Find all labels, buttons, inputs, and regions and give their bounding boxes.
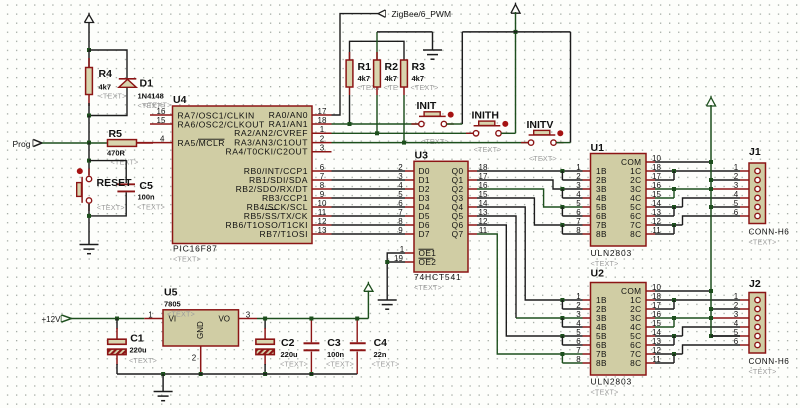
U2 pin 3 3B [583, 317, 591, 319]
svg-text:15: 15 [157, 116, 166, 125]
svg-text:VO: VO [218, 314, 230, 323]
U1 pin 7 7B [583, 224, 591, 226]
U3 pin 2 D0 [405, 170, 414, 172]
wire RB2 to D2 [332, 188, 406, 190]
svg-text:ULN2803: ULN2803 [591, 377, 633, 387]
U1 pin 15 4C [646, 197, 655, 199]
wire 1C/2C to J pin1 [655, 170, 740, 172]
wire RB1 to D1 [332, 179, 406, 181]
svg-text:C1: C1 [130, 333, 144, 345]
node junction [348, 122, 352, 126]
U3 pin 3 D1 [405, 179, 414, 181]
push-button INIT [419, 115, 446, 117]
U4 pin 7 RB1/SDI/SDA [312, 179, 332, 181]
J2 pin 5 [740, 335, 749, 337]
wire 5C/6C to J pin4 [655, 335, 683, 337]
wire Q6 to U2 5B/6B [477, 225, 583, 336]
resistor R1 [349, 52, 351, 60]
svg-text:<TEXT>: <TEXT> [173, 255, 201, 264]
wire RB7 to D7 [332, 233, 406, 235]
svg-text:<TEXT>: <TEXT> [591, 388, 619, 397]
svg-text:<TEXT>: <TEXT> [137, 203, 165, 212]
svg-text:<TEXT>: <TEXT> [111, 158, 139, 167]
U1 pin 3 3B [583, 188, 591, 190]
svg-text:3: 3 [734, 181, 739, 190]
U3 pin 12 Q6 [468, 224, 477, 226]
U2 pin 2 2B [583, 308, 591, 310]
wire Q2 to U1 5B/6B [477, 189, 583, 207]
U2 pin 7 7B [583, 353, 591, 355]
U1 pin 11 8C [646, 233, 655, 235]
wire 5C/6C to J pin4 [655, 206, 683, 208]
connector J1 CONN-H6 body [749, 163, 766, 224]
wire 7C/8C to J pin6 [655, 224, 683, 226]
svg-text:<TE: <TE [384, 83, 399, 92]
svg-text:RB7/T1OSI: RB7/T1OSI [260, 229, 308, 239]
capacitor C3 [310, 319, 312, 343]
wire [88, 204, 90, 245]
J2 pin 3 [740, 317, 749, 319]
U1 pin 8 8B [583, 233, 591, 235]
wire INITV to rail [556, 142, 571, 144]
svg-text:Prog: Prog [13, 139, 31, 149]
svg-text:8B: 8B [596, 229, 607, 239]
svg-text:U2: U2 [591, 268, 605, 280]
U1 pin 14 5C [646, 206, 655, 208]
wire INIT to rail [447, 123, 463, 125]
svg-text:D7: D7 [419, 229, 430, 239]
wire COM to +V rail [655, 161, 711, 163]
svg-text:3: 3 [576, 181, 581, 190]
U2 pin 6 6B [583, 344, 591, 346]
U3 pin 14 Q4 [468, 206, 477, 208]
J1 pin 1 [740, 170, 749, 172]
svg-text:U5: U5 [164, 287, 178, 299]
U4 pin 17 RA0/AN0 [312, 114, 332, 116]
U1 pin 1 1B [583, 170, 591, 172]
node junction [87, 48, 91, 52]
resistor R3 [401, 60, 408, 87]
wire rail left leg to INIT [461, 32, 463, 124]
svg-text:16: 16 [157, 107, 166, 116]
svg-text:220u: 220u [281, 350, 299, 359]
wire RB0 to D0 [332, 170, 406, 172]
svg-text:4k7: 4k7 [99, 83, 112, 92]
wire R2 to ground [377, 31, 433, 33]
svg-text:5: 5 [734, 199, 739, 208]
J1 pin 3 [740, 188, 749, 190]
wire C5 branch [89, 161, 126, 183]
svg-text:2: 2 [734, 172, 739, 181]
svg-text:8: 8 [320, 181, 325, 190]
svg-text:7: 7 [398, 208, 403, 217]
wire Q1 to U1 3B/4B [477, 180, 583, 189]
svg-text:INIT: INIT [417, 100, 437, 112]
svg-text:5: 5 [576, 199, 581, 208]
svg-text:U3: U3 [415, 150, 429, 162]
wire Prog to R5 [42, 142, 108, 144]
capacitor C4 [356, 319, 358, 343]
U3 pin 11 Q7 [468, 233, 477, 235]
wire VO rail [257, 318, 368, 320]
svg-text:<TEXT>: <TEXT> [411, 83, 439, 92]
svg-text:2: 2 [734, 301, 739, 310]
J1 pin 6 [740, 215, 749, 217]
wire RA3 row [332, 142, 529, 144]
svg-text:74HCT541: 74HCT541 [414, 272, 462, 282]
U3 pin 16 Q2 [468, 188, 477, 190]
svg-text:C5: C5 [139, 180, 153, 192]
U2 pin 11 8C [646, 362, 655, 364]
svg-text:6: 6 [320, 163, 325, 172]
wire RA2 row [332, 132, 474, 134]
svg-text:1: 1 [734, 292, 739, 301]
wire [88, 116, 90, 143]
U4 pin 8 RB2/SDO/RX/DT [312, 188, 332, 190]
svg-text:5: 5 [576, 328, 581, 337]
svg-text:2: 2 [398, 163, 403, 172]
regulator U5 7805 body [163, 310, 239, 346]
U2 pin 15 4C [646, 326, 655, 328]
U2 pin 1 1B [583, 299, 591, 301]
U2 pin 17 2C [646, 308, 655, 310]
U1 pin 12 7C [646, 224, 655, 226]
U2 pin 5 5B [583, 335, 591, 337]
op-amp U3 74HCT541 body [414, 161, 468, 272]
U2 pin 8 8B [583, 362, 591, 364]
U4 pin 1 RA2/AN2/CVREF [312, 132, 332, 134]
svg-text:12: 12 [318, 217, 327, 226]
svg-text:<TEXT>: <TEXT> [749, 238, 777, 247]
U3 pin 7 D5 [405, 215, 414, 217]
svg-text:6: 6 [734, 337, 739, 346]
wire R3 bottom [403, 95, 405, 143]
U4 pin 10 RB4/SCK/SCL [312, 206, 332, 208]
J1 pin 4 [740, 197, 749, 199]
svg-text:INITV: INITV [527, 119, 554, 131]
push-button RESET [77, 168, 83, 174]
J1 pin 5 [740, 206, 749, 208]
J2 pin 1 [740, 299, 749, 301]
svg-text:R3: R3 [412, 61, 426, 73]
svg-text:4: 4 [734, 319, 739, 328]
U3 pin 17 Q1 [468, 179, 477, 181]
resistor R5 [108, 140, 137, 147]
J2 pin 2 [740, 308, 749, 310]
wire [367, 291, 369, 319]
svg-text:100n: 100n [138, 193, 156, 202]
svg-text:<TEXT>: <TEXT> [474, 145, 502, 154]
wire rail to J pin5 [711, 206, 740, 208]
wire COM to +V rail [655, 290, 711, 292]
svg-text:10: 10 [318, 199, 327, 208]
svg-text:CONN-H6: CONN-H6 [749, 228, 790, 237]
U4 pin 9 RB3/CCP1 [312, 197, 332, 199]
J2 pin 4 [740, 326, 749, 328]
svg-text:PIC16F87: PIC16F87 [173, 244, 218, 254]
wire 3C/4C to J pin3 [655, 317, 711, 319]
capacitor C2 [264, 319, 266, 330]
wire rail to J pin2 [711, 179, 740, 181]
wire 1C/2C to J pin1 [655, 299, 740, 301]
ground (U3 OE) [378, 299, 397, 301]
wire D1 branch top [89, 50, 127, 78]
svg-text:7: 7 [576, 217, 581, 226]
wire rail to J pin5 [711, 335, 740, 337]
svg-text:C3: C3 [327, 337, 341, 349]
svg-text:6: 6 [576, 208, 581, 217]
svg-text:2: 2 [576, 301, 581, 310]
svg-text:R5: R5 [109, 128, 123, 140]
wire RA1 row [332, 123, 419, 125]
svg-text:J1: J1 [749, 146, 761, 158]
svg-text:1: 1 [320, 125, 325, 134]
U2 pin 10 COM [646, 290, 655, 292]
svg-text:4: 4 [576, 319, 581, 328]
svg-text:17: 17 [318, 107, 327, 116]
U1 pin 13 6C [646, 215, 655, 217]
U3 pin 6 D4 [405, 206, 414, 208]
svg-text:<TEXT>: <TEXT> [129, 356, 157, 365]
U1 pin 10 COM [646, 161, 655, 163]
push-button INITH [474, 125, 501, 127]
U3 pin 19 OE2 [405, 261, 414, 263]
U4 pin 2 RA3/AN3/C1OUT [312, 142, 332, 144]
svg-text:GND: GND [196, 321, 205, 339]
wire ZigBee to RA0 [332, 14, 379, 115]
U5 pin 3 VO [239, 318, 258, 320]
svg-text:7: 7 [576, 346, 581, 355]
node junction [402, 141, 406, 145]
U4 pin 13 RB7/T1OSI [312, 233, 332, 235]
U3 pin 4 D2 [405, 188, 414, 190]
node junction [115, 317, 119, 321]
wire buttons top rail [462, 31, 570, 33]
U3 pin 13 Q5 [468, 215, 477, 217]
svg-text:4k7: 4k7 [385, 74, 398, 83]
svg-text:4: 4 [160, 134, 165, 143]
capacitor C5 [117, 183, 135, 185]
diode D1 [119, 78, 137, 80]
svg-text:<TEXT>: <TEXT> [749, 367, 777, 376]
U4 pin 18 RA1/AN1 [312, 123, 332, 125]
svg-text:9: 9 [398, 226, 403, 235]
U3 pin 8 D6 [405, 224, 414, 226]
svg-text:<TEXT>: <TEXT> [421, 137, 449, 146]
svg-text:1: 1 [734, 163, 739, 172]
U3 pin 9 D7 [405, 233, 414, 235]
U1 pin 2 2B [583, 179, 591, 181]
wire R1 bottom [349, 95, 351, 124]
svg-text:7805: 7805 [164, 300, 181, 309]
svg-text:6: 6 [398, 199, 403, 208]
node junction [87, 214, 91, 218]
svg-text:8: 8 [576, 226, 581, 235]
svg-text:ULN2803: ULN2803 [591, 248, 633, 258]
U2 pin 16 3C [646, 317, 655, 319]
svg-text:8C: 8C [630, 358, 641, 368]
svg-text:9: 9 [320, 190, 325, 199]
wire [88, 143, 90, 175]
svg-text:1: 1 [576, 163, 581, 172]
op-amp U4 PIC16F87 body [173, 106, 313, 244]
svg-text:<TEXT>: <TEXT> [372, 360, 400, 369]
wire 3C/4C to J pin3 [655, 188, 711, 190]
wire +V rail vertical [710, 105, 712, 336]
svg-text:<TEXT>: <TEXT> [99, 92, 127, 101]
wire [88, 23, 90, 51]
U1 pin 16 3C [646, 188, 655, 190]
wire R2 top [376, 32, 378, 60]
svg-text:11: 11 [318, 208, 327, 217]
J2 pin 6 [740, 344, 749, 346]
wire power stem [515, 12, 517, 133]
svg-text:ZigBee/6_PWM: ZigBee/6_PWM [392, 9, 452, 19]
svg-text:4: 4 [576, 190, 581, 199]
wire Q0 to U1 1B/2B [477, 170, 583, 172]
wire 12V to U5 [71, 318, 145, 320]
U4 pin 12 RB6/T1OSO/T1CKI [312, 224, 332, 226]
svg-text:100n: 100n [327, 350, 345, 359]
svg-text:220u: 220u [130, 346, 148, 355]
svg-text:1: 1 [148, 310, 153, 319]
U3 pin 15 Q3 [468, 197, 477, 199]
svg-text:<TEXT>: <TEXT> [529, 154, 557, 163]
power terminal (buttons rail) [511, 4, 520, 13]
U2 pin 4 4B [583, 326, 591, 328]
svg-text:<TEXT>: <TEXT> [97, 203, 125, 212]
op-amp U1 ULN2803 body [591, 154, 647, 247]
U3 pin 5 D3 [405, 197, 414, 199]
wire rail to J pin2 [711, 308, 740, 310]
svg-text:C2: C2 [281, 337, 295, 349]
U5 pin 1 VI [144, 318, 163, 320]
wire RB6 to D6 [332, 224, 406, 226]
wire RB4 to D4 [332, 206, 406, 208]
svg-text:2: 2 [320, 134, 325, 143]
svg-text:4: 4 [398, 181, 403, 190]
svg-text:CONN-H6: CONN-H6 [749, 357, 790, 366]
svg-text:3: 3 [320, 144, 325, 153]
U4 pin 11 RB5/SS/TX/CK [312, 215, 332, 217]
wire R2 bottom [376, 95, 378, 133]
svg-text:5: 5 [734, 328, 739, 337]
svg-text:+12V: +12V [42, 315, 62, 324]
svg-text:8C: 8C [630, 229, 641, 239]
J1 pin 2 [740, 179, 749, 181]
svg-text:<TEXT>: <TEXT> [280, 360, 308, 369]
node junction [161, 372, 165, 376]
node junction [375, 131, 379, 135]
svg-text:7: 7 [320, 172, 325, 181]
wire 7C/8C to J pin6 [655, 353, 683, 355]
U2 pin 13 6C [646, 344, 655, 346]
U2 pin 18 1C [646, 299, 655, 301]
svg-text:<TEXT>: <TEXT> [326, 360, 354, 369]
U3 pin 1 OE1 [405, 252, 414, 254]
svg-text:2: 2 [576, 172, 581, 181]
svg-text:8: 8 [398, 217, 403, 226]
svg-text:4: 4 [734, 190, 739, 199]
terminal ZigBee/6_PWM [384, 10, 386, 17]
wire rail right leg to INITV [570, 32, 572, 143]
svg-text:3: 3 [576, 310, 581, 319]
node junction [385, 260, 389, 264]
svg-text:1: 1 [576, 292, 581, 301]
capacitor C1 [116, 319, 118, 330]
node junction [87, 141, 91, 145]
wire C5 bottom [89, 192, 126, 216]
svg-text:Q7: Q7 [452, 229, 464, 239]
svg-text:U4: U4 [173, 94, 187, 106]
wire Q3 to U1 7B/8B [477, 198, 583, 225]
U1 pin 17 2C [646, 179, 655, 181]
wire Q7 to U2 7B/8B [477, 234, 583, 354]
node junction [87, 114, 91, 118]
wire bottom ground rail [117, 373, 357, 375]
U1 pin 5 5B [583, 206, 591, 208]
ground (reset) [80, 244, 99, 246]
U3 pin 18 Q0 [468, 170, 477, 172]
svg-text:R4: R4 [99, 68, 113, 80]
power terminal (5V) [364, 284, 373, 292]
svg-text:2: 2 [192, 354, 197, 363]
svg-text:J2: J2 [749, 278, 761, 290]
svg-text:RA4/T0CKI/C2OUT: RA4/T0CKI/C2OUT [226, 147, 309, 157]
svg-text:U1: U1 [591, 142, 605, 154]
node junction [199, 372, 203, 376]
svg-text:D1: D1 [140, 78, 154, 90]
wire R1-R3 top link [350, 41, 405, 60]
U1 pin 4 4B [583, 197, 591, 199]
U4 pin 6 RB0/INT/CCP1 [312, 170, 332, 172]
U4 pin 15 RA6 [150, 123, 173, 125]
U2 pin 12 7C [646, 353, 655, 355]
wire RB5 to D5 [332, 215, 406, 217]
svg-text:4k7: 4k7 [358, 74, 371, 83]
op-amp U2 ULN2803 body [591, 283, 647, 376]
power terminal (+V rail right) [706, 98, 715, 107]
svg-text:R2: R2 [385, 61, 399, 73]
U4 pin 16 RA7 [150, 114, 173, 116]
svg-text:1N4148: 1N4148 [138, 92, 164, 101]
node junction [87, 159, 91, 163]
wire Q4 to U2 1B/2B [477, 207, 583, 300]
wire INITH to rail [501, 132, 515, 134]
svg-text:6: 6 [734, 208, 739, 217]
svg-text:3: 3 [246, 310, 251, 319]
svg-text:R1: R1 [358, 61, 372, 73]
svg-text:470R: 470R [107, 149, 126, 158]
U4 pin 4 RA5/MCLR [137, 142, 173, 144]
svg-text:<TEXT>: <TEXT> [414, 283, 442, 292]
push-button INITV [529, 134, 556, 136]
power terminal +V (top-left) [84, 15, 93, 23]
svg-text:4k7: 4k7 [412, 74, 425, 83]
svg-text:18: 18 [318, 116, 327, 125]
resistor R4 [88, 50, 90, 68]
svg-text:22n: 22n [374, 350, 387, 359]
wire RB3 to D3 [332, 197, 406, 199]
svg-text:13: 13 [318, 226, 327, 235]
svg-text:8: 8 [576, 355, 581, 364]
svg-text:INITH: INITH [472, 110, 499, 122]
wire OE1/OE2 to ground [387, 253, 405, 300]
U4 RB5 SS overline [265, 208, 278, 210]
U1 pin 18 1C [646, 170, 655, 172]
resistor R2 [376, 52, 378, 60]
node junction [514, 30, 518, 34]
